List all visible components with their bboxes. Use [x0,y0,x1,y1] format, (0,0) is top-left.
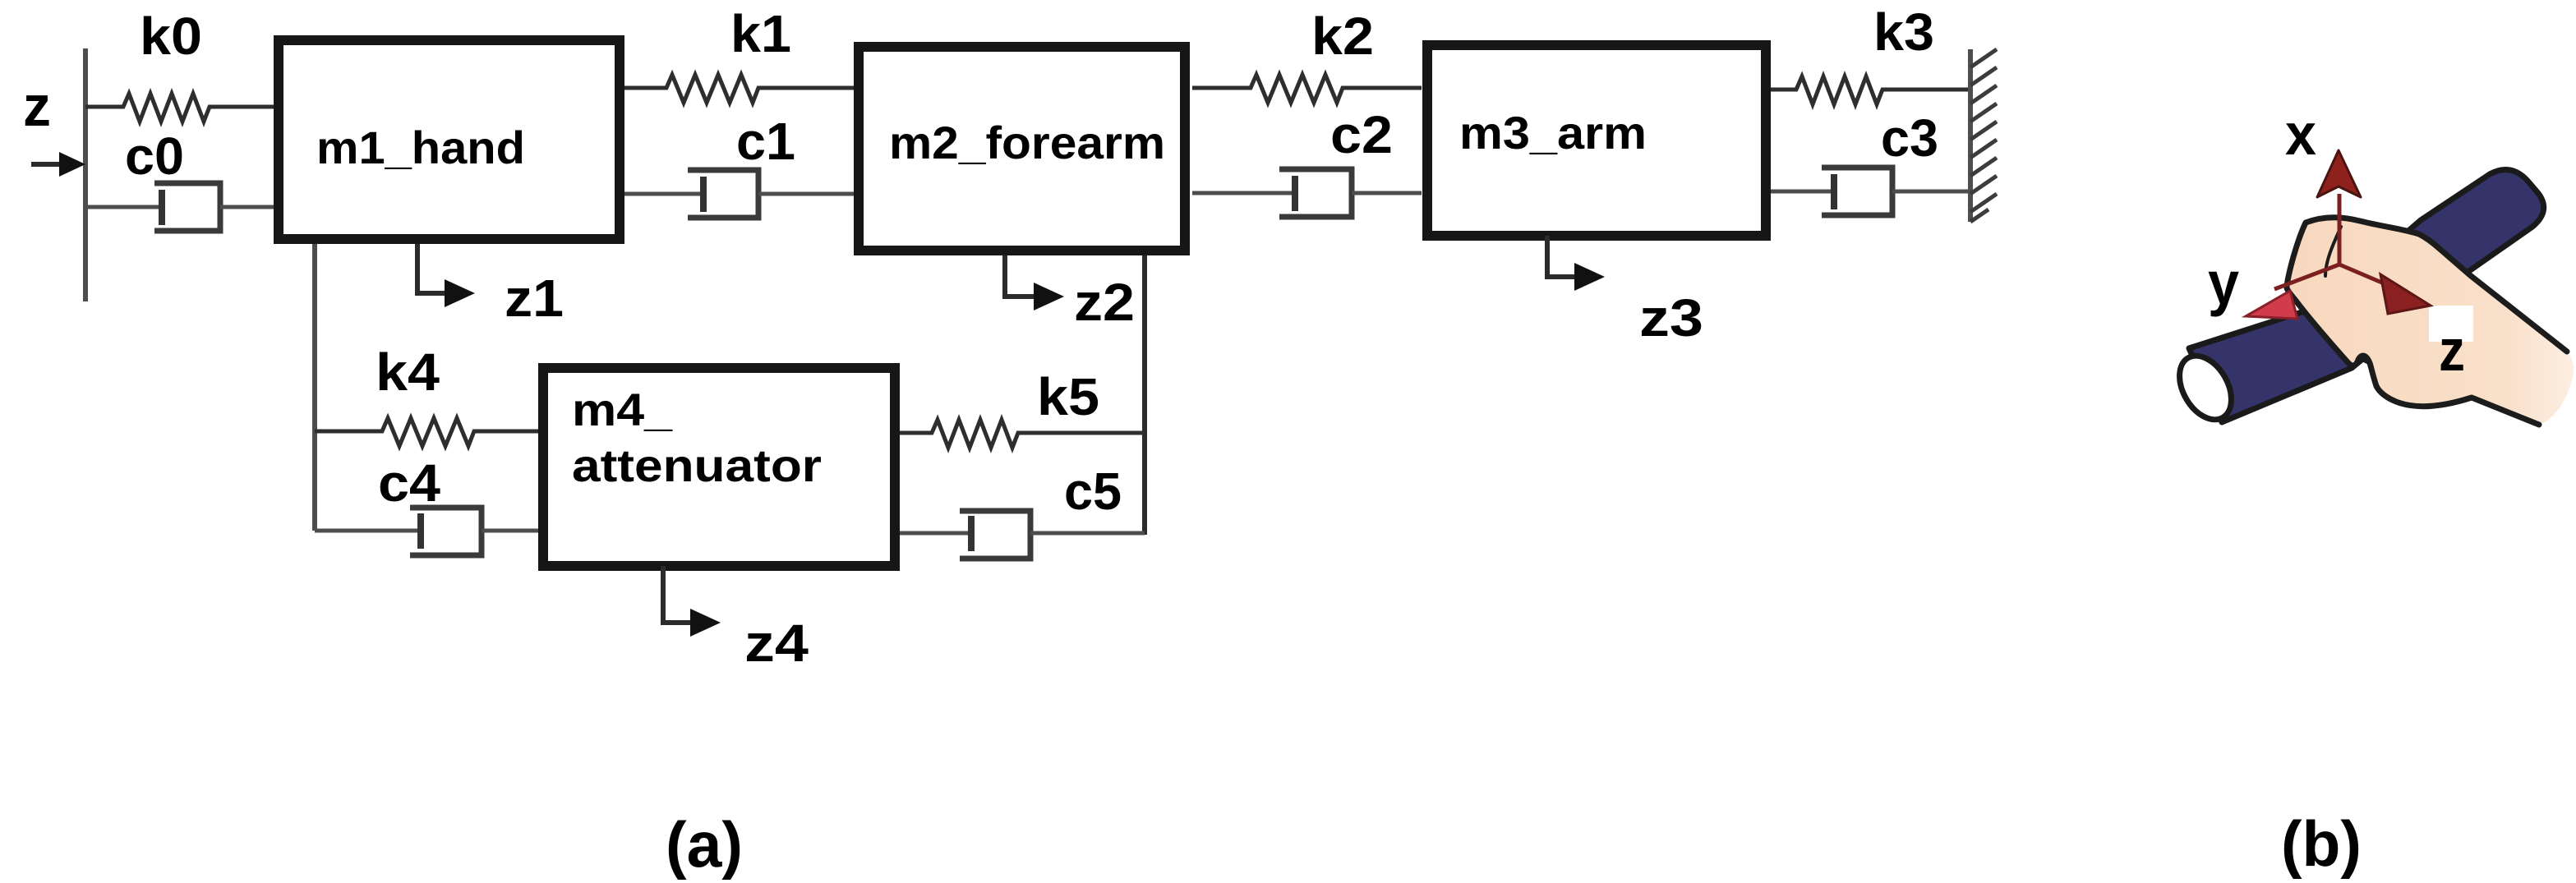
svg-text:k3: k3 [1873,2,1934,62]
white patch [2429,306,2473,342]
svg-text:c1: c1 [736,112,795,171]
axis x [2317,150,2361,264]
svg-text:(b): (b) [2281,807,2362,880]
svg-text:k0: k0 [140,7,202,66]
mass m3 box [1427,45,1766,236]
axis y [2246,264,2339,319]
spring k0 [85,94,274,122]
spring k1 [624,75,854,103]
spring k5 [900,420,1145,448]
mass m1 box [279,40,620,239]
damper c0 [85,183,274,231]
svg-text:z: z [2439,319,2465,384]
damper c1 [624,170,854,218]
svg-text:c3: c3 [1881,108,1938,168]
svg-text:(a): (a) [666,808,743,881]
arrow z2 [1005,255,1064,310]
mass m2 box [859,47,1185,251]
input arrow z [31,152,85,177]
hand inner lines [2325,227,2341,276]
arrow z4 [663,566,721,637]
svg-text:c2: c2 [1330,105,1393,164]
svg-text:m1_hand: m1_hand [316,122,525,173]
wall right with hatching [1968,49,1973,222]
arrow z1 [417,244,475,307]
svg-text:k5: k5 [1037,367,1099,426]
svg-text:c5: c5 [1064,462,1122,521]
arrow z3 [1547,236,1605,291]
svg-text:k4: k4 [376,343,440,402]
wire left drop [312,244,317,531]
svg-text:x: x [2285,103,2316,168]
spring k4 [315,418,538,446]
svg-text:z1: z1 [505,269,564,328]
svg-text:m4_: m4_ [572,384,673,435]
svg-text:y: y [2208,249,2239,317]
damper c2 [1192,169,1422,217]
hand outline [2287,218,2567,425]
wire right drop [1142,255,1147,535]
damper c4 [315,508,538,555]
damper c5 [900,511,1145,559]
mass m4 box [543,368,895,566]
svg-text:attenuator: attenuator [572,439,822,491]
damper c3 [1771,168,1970,215]
rod end cap [2169,347,2242,429]
svg-text:m3_arm: m3_arm [1459,107,1647,159]
svg-text:m2_forearm: m2_forearm [889,117,1165,168]
wall left [83,48,88,301]
svg-text:k1: k1 [730,4,791,63]
svg-text:k2: k2 [1311,7,1374,66]
spring k3 [1771,76,1970,104]
axis z [2339,264,2431,314]
svg-text:c0: c0 [125,126,184,186]
svg-text:z4: z4 [744,614,809,673]
svg-text:z3: z3 [1639,288,1703,347]
spring k2 [1192,75,1422,103]
svg-text:c4: c4 [378,453,440,513]
svg-text:z2: z2 [1074,273,1135,332]
svg-text:z: z [23,74,51,138]
tool handle rod [2189,170,2544,422]
